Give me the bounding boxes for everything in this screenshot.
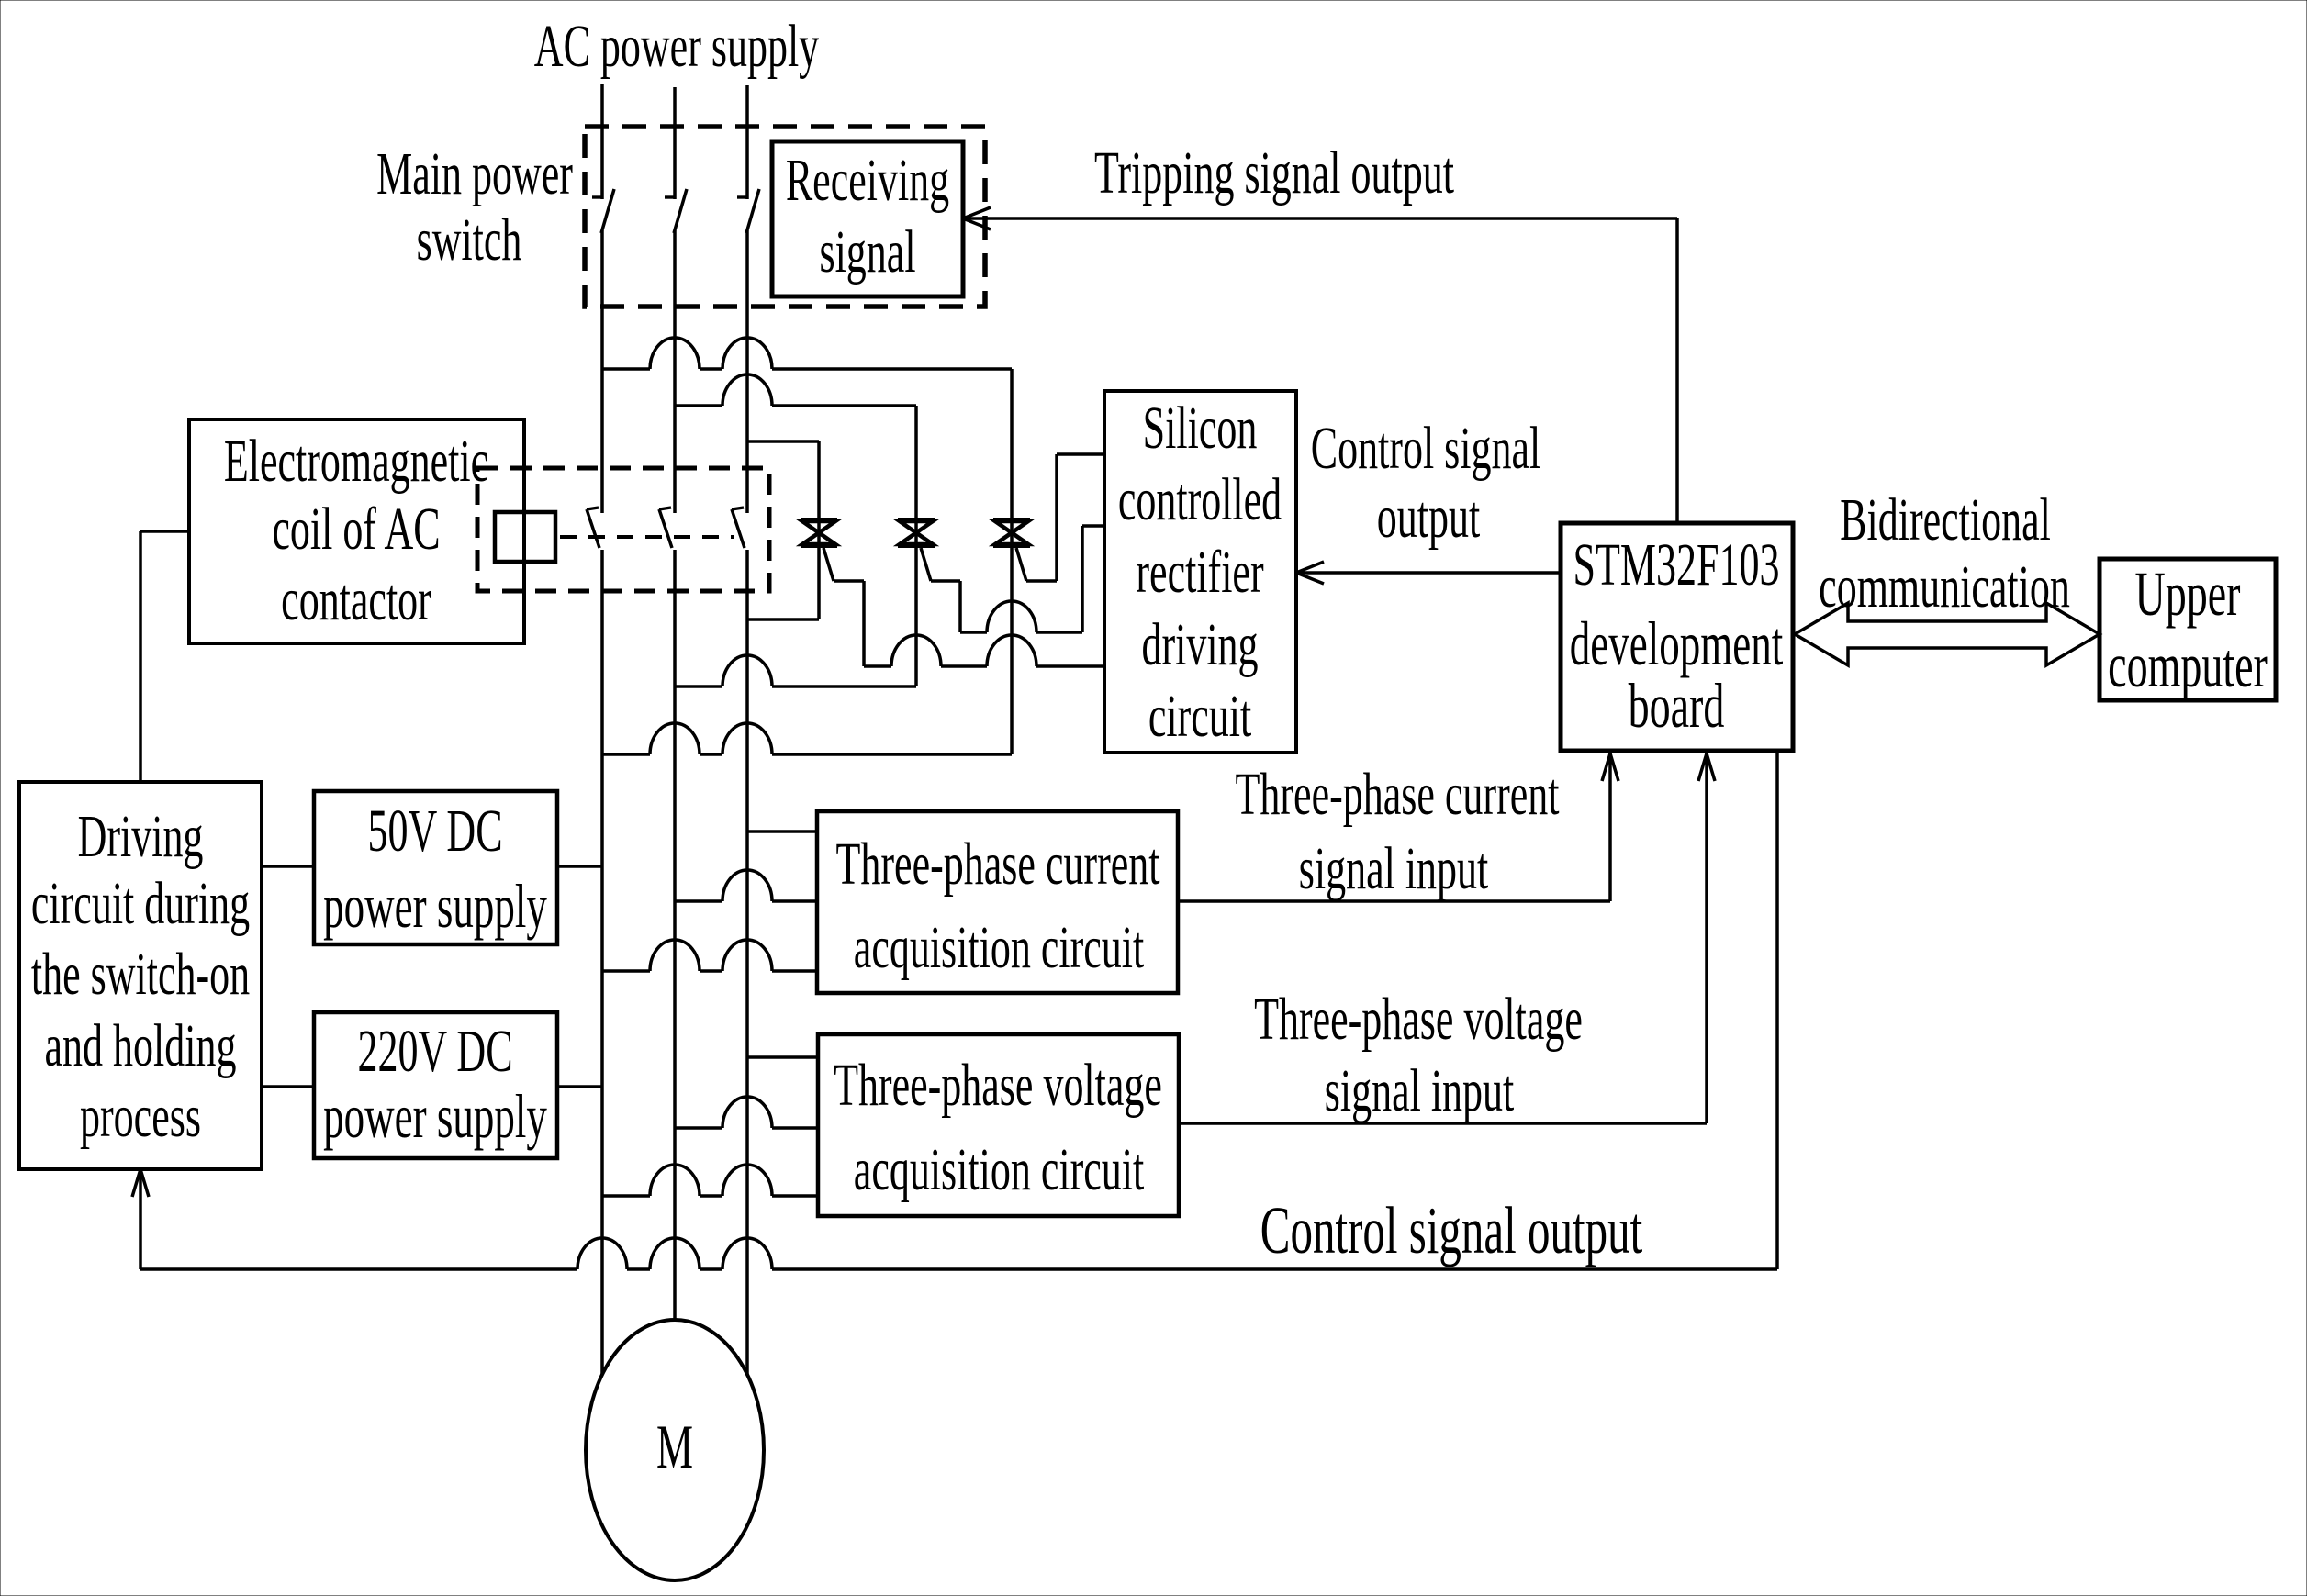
- svg-text:Electromagnetic: Electromagnetic: [224, 428, 488, 495]
- svg-text:power supply: power supply: [323, 873, 547, 941]
- svg-text:and holding: and holding: [45, 1012, 237, 1079]
- svg-text:computer: computer: [2108, 631, 2268, 700]
- svg-text:development: development: [1570, 610, 1783, 678]
- svg-text:Silicon: Silicon: [1143, 395, 1258, 462]
- svg-text:circuit during: circuit during: [31, 870, 250, 937]
- svg-text:Receiving: Receiving: [786, 147, 949, 214]
- svg-text:Main power: Main power: [376, 140, 573, 207]
- svg-text:circuit: circuit: [1148, 683, 1252, 750]
- svg-text:acquisition circuit: acquisition circuit: [854, 1136, 1145, 1203]
- svg-text:Bidirectional: Bidirectional: [1840, 486, 2051, 553]
- svg-text:controlled: controlled: [1118, 466, 1282, 533]
- svg-text:the switch-on: the switch-on: [31, 941, 250, 1008]
- svg-text:STM32F103: STM32F103: [1573, 531, 1780, 598]
- svg-text:Driving: Driving: [78, 803, 204, 870]
- svg-text:board: board: [1629, 671, 1725, 741]
- svg-text:signal input: signal input: [1325, 1057, 1515, 1124]
- svg-text:Three-phase voltage: Three-phase voltage: [1254, 986, 1583, 1053]
- svg-text:Upper: Upper: [2135, 559, 2241, 629]
- svg-text:process: process: [80, 1083, 201, 1150]
- svg-text:rectifier: rectifier: [1136, 539, 1263, 606]
- svg-text:Tripping signal output: Tripping signal output: [1094, 140, 1454, 206]
- svg-text:contactor: contactor: [281, 566, 431, 633]
- svg-text:signal: signal: [819, 218, 915, 285]
- svg-text:AC power supply: AC power supply: [534, 13, 819, 80]
- svg-text:communication: communication: [1819, 553, 2070, 620]
- svg-text:power supply: power supply: [323, 1083, 547, 1151]
- svg-text:Three-phase current: Three-phase current: [836, 831, 1160, 898]
- svg-text:coil of AC: coil of AC: [272, 496, 440, 563]
- svg-text:acquisition circuit: acquisition circuit: [854, 914, 1145, 981]
- svg-text:Three-phase voltage: Three-phase voltage: [834, 1052, 1162, 1119]
- svg-text:M: M: [656, 1413, 693, 1481]
- svg-text:Control signal: Control signal: [1311, 415, 1541, 482]
- svg-text:220V DC: 220V DC: [357, 1018, 512, 1085]
- svg-text:switch: switch: [417, 206, 522, 273]
- svg-text:signal input: signal input: [1299, 835, 1489, 902]
- svg-text:output: output: [1377, 484, 1481, 551]
- svg-text:driving: driving: [1141, 611, 1258, 678]
- svg-text:Three-phase current: Three-phase current: [1236, 761, 1560, 828]
- svg-text:Control signal output: Control signal output: [1260, 1192, 1642, 1267]
- svg-text:50V DC: 50V DC: [367, 798, 502, 865]
